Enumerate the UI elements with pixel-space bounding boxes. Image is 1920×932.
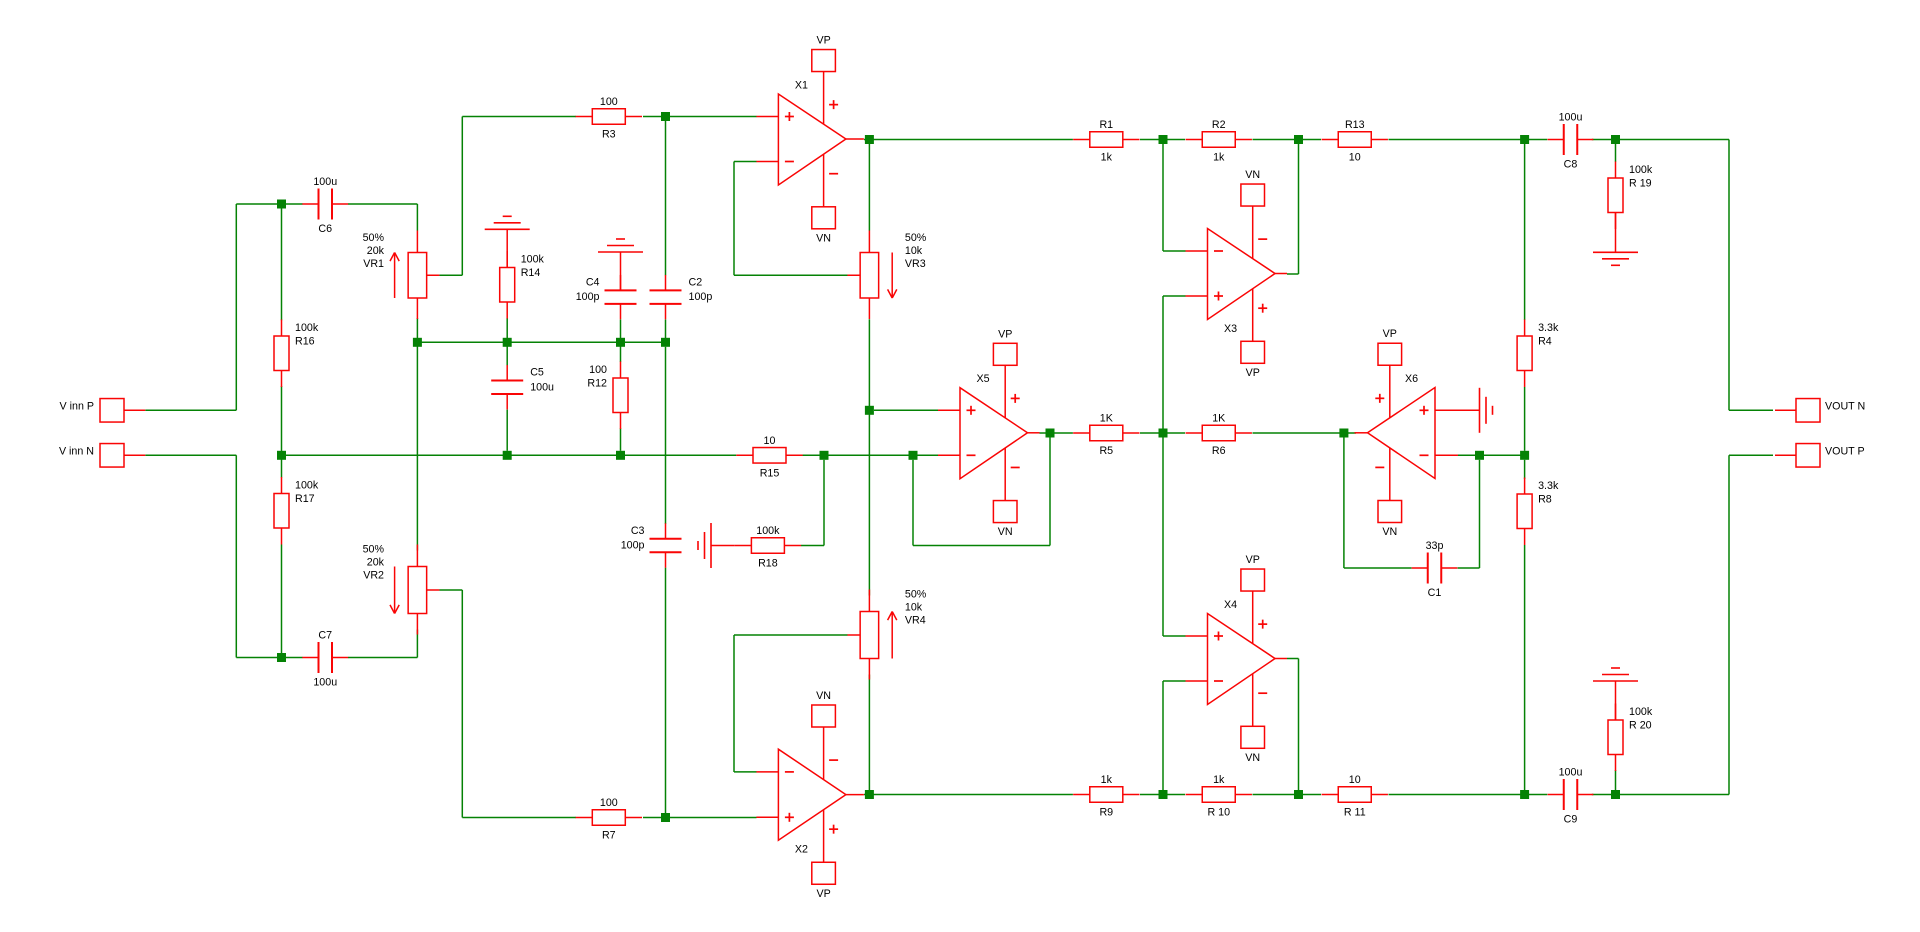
- svg-text:VP: VP: [816, 888, 830, 900]
- wire X1 output to VR3 top: [868, 140, 870, 231]
- svg-text:1K: 1K: [1100, 413, 1114, 425]
- wire R17 bottom to C7 line: [281, 545, 283, 654]
- svg-text:VP: VP: [816, 35, 830, 47]
- wire X2 output rail: [864, 794, 1073, 796]
- wire C1 right: [1458, 567, 1480, 569]
- wire X5 output to feedback: [1049, 438, 1051, 546]
- wire R1/R2 node to X3 minus: [1162, 144, 1164, 251]
- svg-text:R8: R8: [1538, 494, 1552, 506]
- wire V inn N dropper: [235, 455, 237, 657]
- svg-text:C8: C8: [1564, 159, 1578, 171]
- wire R19 to ground: [1615, 213, 1617, 253]
- op-amp X3: [1186, 169, 1288, 379]
- wire V inn P riser: [235, 204, 237, 410]
- wire X4 output: [1287, 658, 1299, 660]
- capacitor C7: [302, 630, 348, 689]
- svg-text:100u: 100u: [1559, 767, 1583, 779]
- wire to VOUT N port: [1729, 409, 1773, 411]
- junction X5 output: [1046, 429, 1055, 438]
- wire X3 plus input: [1163, 295, 1186, 297]
- resistor R3: [576, 96, 642, 141]
- svg-text:R 19: R 19: [1629, 178, 1652, 190]
- svg-text:X1: X1: [795, 80, 808, 92]
- svg-text:R14: R14: [521, 267, 541, 279]
- wire center line to R15: [282, 454, 737, 456]
- junction R2/R13: [1294, 135, 1303, 144]
- ground left of R18: [698, 523, 711, 568]
- resistor R8: [1517, 478, 1559, 546]
- resistor R12: [587, 362, 628, 430]
- wire X3 output: [1287, 273, 1299, 275]
- wire X4 minus to R9/R10 node: [1162, 681, 1164, 790]
- resistor R9: [1073, 774, 1139, 819]
- wire up to VR2 bottom: [416, 630, 418, 658]
- svg-text:V inn P: V inn P: [60, 400, 94, 412]
- capacitor C1: [1412, 540, 1458, 599]
- svg-text:R1: R1: [1099, 119, 1113, 131]
- wire C8 to output corner: [1592, 139, 1729, 141]
- svg-text:100u: 100u: [1559, 112, 1583, 124]
- junction C8/R19: [1611, 135, 1620, 144]
- junction R13/C8/R4: [1520, 135, 1529, 144]
- svg-text:10k: 10k: [905, 602, 923, 614]
- wire X6 output to C1: [1343, 438, 1345, 569]
- capacitor C4: [576, 275, 637, 319]
- op-amp X4: [1186, 554, 1288, 764]
- svg-text:VR1: VR1: [363, 258, 384, 270]
- resistor R10: [1186, 774, 1252, 819]
- svg-text:X6: X6: [1405, 373, 1418, 385]
- ground below R19: [1593, 252, 1638, 265]
- svg-text:10: 10: [1349, 152, 1361, 164]
- svg-text:50%: 50%: [363, 232, 385, 244]
- svg-text:3.3k: 3.3k: [1538, 480, 1559, 492]
- svg-text:100u: 100u: [313, 677, 337, 689]
- svg-text:C4: C4: [586, 276, 600, 288]
- wire VR4 wiper: [734, 634, 848, 636]
- wire R14 bottom / C5 top: [506, 318, 508, 366]
- potentiometer VR2: [363, 544, 440, 635]
- svg-text:X2: X2: [795, 844, 808, 856]
- wire C9 to output corner: [1592, 794, 1729, 796]
- junction R10/R11: [1294, 790, 1303, 799]
- wire C4 bottom / R12 top: [620, 320, 622, 363]
- wire X4 plus input: [1163, 635, 1186, 637]
- svg-text:R13: R13: [1345, 119, 1365, 131]
- junction X5 feedback tap: [909, 451, 918, 460]
- wire X1 feedback riser: [733, 162, 735, 276]
- wire feedback to VR3 wiper: [734, 274, 848, 276]
- svg-text:1K: 1K: [1212, 413, 1226, 425]
- wire X5 output to R5: [1040, 432, 1073, 434]
- resistor R20: [1608, 704, 1653, 772]
- svg-text:100k: 100k: [295, 322, 319, 334]
- wire down to R4: [1524, 144, 1526, 320]
- wire R9 to R10: [1140, 794, 1185, 796]
- wire X6 plus input to ground: [1435, 409, 1480, 411]
- svg-text:100k: 100k: [295, 479, 319, 491]
- svg-text:R3: R3: [602, 129, 616, 141]
- svg-text:VOUT P: VOUT P: [1825, 445, 1865, 457]
- junction C4/R12: [616, 338, 625, 347]
- wire down to VR1 top: [416, 204, 418, 231]
- junction VR3 bottom / X5 input: [865, 406, 874, 415]
- svg-text:R2: R2: [1212, 119, 1226, 131]
- svg-text:3.3k: 3.3k: [1538, 322, 1559, 334]
- svg-text:20k: 20k: [367, 245, 385, 257]
- svg-text:VR2: VR2: [363, 570, 384, 582]
- wire C3 bottom to R7 line: [665, 568, 667, 813]
- ground above R20: [1593, 668, 1638, 681]
- wire VR4 bottom to X2 output: [868, 675, 870, 795]
- wire R18 to ground: [711, 545, 735, 547]
- capacitor C2: [650, 275, 713, 319]
- wire R7 to X2 plus input: [643, 817, 757, 819]
- svg-text:X5: X5: [976, 373, 989, 385]
- svg-text:10: 10: [1349, 774, 1361, 786]
- wire to R19: [1615, 144, 1617, 162]
- svg-text:100p: 100p: [689, 291, 713, 303]
- op-amp X2: [756, 690, 864, 900]
- svg-text:VN: VN: [1382, 526, 1397, 538]
- wire X3 output riser: [1298, 144, 1300, 274]
- wire X5 feedback bottom: [913, 545, 1050, 547]
- junction C5 bottom: [503, 451, 512, 460]
- svg-text:VN: VN: [816, 232, 831, 244]
- junction C3 / R7 / X2 input: [661, 813, 670, 822]
- wire VR2 wiper dropper: [461, 590, 463, 818]
- junction X6 output / C1: [1339, 429, 1348, 438]
- wire X6 minus to R4/R8 node: [1458, 454, 1525, 456]
- wire X3 minus input: [1163, 250, 1186, 252]
- wire V inn N to C7: [236, 657, 302, 659]
- svg-text:100: 100: [600, 96, 618, 108]
- resistor R5: [1073, 413, 1139, 458]
- wire X1 output rail: [864, 139, 1073, 141]
- capacitor C3: [621, 523, 682, 567]
- junction X1 output: [865, 135, 874, 144]
- wire R5 to R6: [1140, 432, 1185, 434]
- resistor R13: [1322, 119, 1388, 164]
- resistor R19: [1608, 162, 1653, 230]
- wire R20 to rail: [1615, 770, 1617, 790]
- resistor R18: [735, 525, 801, 570]
- wire X4 output dropper: [1298, 659, 1300, 791]
- svg-text:R17: R17: [295, 493, 315, 505]
- wire R10 to R11: [1253, 794, 1322, 796]
- junction R16/R17 center tap: [277, 451, 286, 460]
- wire R8 bottom to output rail: [1524, 545, 1526, 790]
- junction X2 output: [865, 790, 874, 799]
- svg-text:C9: C9: [1564, 814, 1578, 826]
- svg-text:C2: C2: [689, 276, 703, 288]
- junction R5/R6: [1159, 429, 1168, 438]
- svg-text:50%: 50%: [905, 232, 927, 244]
- wire R20 to ground: [1615, 681, 1617, 720]
- wire VR1 bottom to VR2 top: [416, 318, 418, 551]
- wire VR1 wiper riser: [461, 117, 463, 276]
- op-amp X5: [938, 328, 1040, 538]
- wire C7 to VR2: [348, 657, 417, 659]
- capacitor C5: [491, 365, 554, 409]
- wire X2 feedback riser: [733, 635, 735, 772]
- svg-text:50%: 50%: [363, 544, 385, 556]
- wire X2 minus input: [734, 771, 757, 773]
- wire C2 top riser: [665, 121, 667, 275]
- svg-text:R12: R12: [587, 378, 607, 390]
- svg-text:R 10: R 10: [1207, 807, 1230, 819]
- resistor R17: [274, 477, 319, 545]
- junction R3 / C2 / X1 input: [661, 112, 670, 121]
- wire tap to X5 plus input: [874, 409, 945, 411]
- svg-text:VP: VP: [1383, 328, 1397, 340]
- svg-text:R 20: R 20: [1629, 720, 1652, 732]
- wire bias mid rail: [417, 341, 665, 343]
- wire C4 to ground: [620, 252, 622, 290]
- svg-text:50%: 50%: [905, 589, 927, 601]
- svg-text:R16: R16: [295, 336, 315, 348]
- svg-text:R 11: R 11: [1344, 807, 1366, 819]
- svg-text:C6: C6: [318, 223, 332, 235]
- svg-text:R18: R18: [758, 558, 778, 570]
- svg-text:R7: R7: [602, 830, 616, 842]
- svg-text:VR4: VR4: [905, 615, 926, 627]
- junction V inn P / R16 / C6: [277, 200, 286, 209]
- resistor R11: [1322, 774, 1388, 819]
- svg-text:C3: C3: [631, 525, 645, 537]
- wire R14 to ground: [506, 229, 508, 267]
- junction V inn N / R17 / C7: [277, 653, 286, 662]
- potentiometer VR1: [363, 231, 440, 320]
- junction mid rail / C2 / C3: [661, 338, 670, 347]
- potentiometer VR3: [847, 231, 926, 320]
- resistor R1: [1073, 119, 1139, 164]
- svg-text:100: 100: [589, 364, 607, 376]
- svg-text:100k: 100k: [1629, 164, 1653, 176]
- svg-text:1k: 1k: [1213, 774, 1225, 786]
- svg-text:100p: 100p: [576, 291, 600, 303]
- wire to VOUT P port: [1729, 454, 1773, 456]
- op-amp X6: [1355, 328, 1459, 538]
- wire C6 to VR1: [348, 203, 417, 205]
- wire X1 minus input: [734, 161, 757, 163]
- svg-text:1k: 1k: [1101, 774, 1113, 786]
- svg-text:100: 100: [600, 797, 618, 809]
- wire R12 bottom to center line: [620, 428, 622, 451]
- svg-text:R15: R15: [760, 467, 780, 479]
- wire VR2 wiper: [439, 589, 462, 591]
- wire mid rail to C3 top: [665, 347, 667, 524]
- svg-text:100u: 100u: [313, 176, 337, 188]
- capacitor C8: [1548, 112, 1594, 171]
- wire node junction to R16 top: [281, 204, 283, 320]
- svg-text:X4: X4: [1224, 599, 1237, 611]
- port VOUT N: [1775, 399, 1865, 423]
- wire X5 feedback riser: [912, 460, 914, 546]
- svg-text:VOUT N: VOUT N: [1825, 400, 1865, 412]
- svg-text:VP: VP: [1246, 367, 1260, 379]
- junction R9/R10: [1159, 790, 1168, 799]
- svg-text:V inn N: V inn N: [59, 445, 94, 457]
- junction VR1 bottom: [413, 338, 422, 347]
- svg-text:VN: VN: [998, 526, 1013, 538]
- svg-text:10k: 10k: [905, 245, 923, 257]
- resistor R2: [1186, 119, 1252, 164]
- wire VOUT N dropper: [1728, 140, 1730, 411]
- wire node to R8: [1524, 460, 1526, 479]
- svg-text:100p: 100p: [621, 540, 645, 552]
- wire VR1 wiper: [439, 274, 462, 276]
- wire R15 to X5 minus input: [803, 454, 945, 456]
- svg-text:1k: 1k: [1213, 152, 1225, 164]
- capacitor C9: [1548, 767, 1594, 826]
- wire C1 to X6 minus node: [1479, 460, 1481, 568]
- svg-text:100k: 100k: [756, 525, 780, 537]
- ground at X6 + input: [1480, 388, 1493, 433]
- wire R16 bottom to R17 top: [281, 386, 283, 478]
- junction C1 / X6 minus: [1475, 451, 1484, 460]
- potentiometer VR4: [847, 589, 926, 680]
- wire R18 to tap corner: [801, 545, 824, 547]
- wire C5 bottom to center line: [506, 410, 508, 451]
- svg-text:20k: 20k: [367, 557, 385, 569]
- wire X3 plus to X4 plus: [1162, 296, 1164, 636]
- wire R11 to C9: [1389, 794, 1548, 796]
- wire V inn P to C6: [236, 203, 302, 205]
- capacitor C6: [302, 176, 348, 235]
- svg-text:33p: 33p: [1426, 540, 1444, 552]
- svg-text:R9: R9: [1099, 807, 1113, 819]
- svg-text:X3: X3: [1224, 323, 1237, 335]
- wire to C1 left: [1344, 567, 1412, 569]
- op-amp X1: [756, 35, 864, 245]
- resistor R6: [1186, 413, 1252, 458]
- wire C2 bottom: [665, 320, 667, 343]
- junction R12 bottom: [616, 451, 625, 460]
- junction R8 / output rail: [1520, 790, 1529, 799]
- wire R3 to X1 plus input: [643, 116, 757, 118]
- wire to R3: [462, 116, 576, 118]
- resistor R15: [736, 435, 802, 480]
- svg-text:1k: 1k: [1101, 152, 1113, 164]
- wire V inn P lead: [145, 409, 236, 411]
- resistor R16: [274, 320, 319, 388]
- wire V inn N lead: [145, 454, 236, 456]
- junction C9/R20: [1611, 790, 1620, 799]
- wire X4 minus input: [1163, 680, 1186, 682]
- wire R2 to R13: [1253, 139, 1322, 141]
- svg-text:100u: 100u: [530, 381, 554, 393]
- svg-text:VR3: VR3: [905, 258, 926, 270]
- wire R18 tap riser: [823, 460, 825, 546]
- ground above R14: [485, 216, 530, 229]
- wire VOUT P riser: [1728, 455, 1730, 794]
- svg-text:C5: C5: [530, 367, 544, 379]
- wire R13 to C8: [1389, 139, 1548, 141]
- svg-text:VP: VP: [998, 328, 1012, 340]
- ground above C4: [598, 239, 643, 252]
- svg-text:R5: R5: [1099, 445, 1113, 457]
- resistor R14: [500, 251, 545, 319]
- junction R18 tap: [820, 451, 829, 460]
- resistor R4: [1517, 320, 1559, 388]
- wire R4 bottom to node: [1524, 387, 1526, 451]
- wire VR3 bottom to VR4 top: [868, 319, 870, 595]
- svg-text:10: 10: [764, 435, 776, 447]
- svg-text:100k: 100k: [1629, 706, 1653, 718]
- svg-text:R6: R6: [1212, 445, 1226, 457]
- svg-text:R4: R4: [1538, 336, 1552, 348]
- wire R1 to R2: [1140, 139, 1185, 141]
- svg-text:100k: 100k: [521, 253, 545, 265]
- svg-text:VN: VN: [816, 690, 831, 702]
- junction R14/C5: [503, 338, 512, 347]
- resistor R7: [576, 797, 642, 842]
- junction R1/R2: [1159, 135, 1168, 144]
- port V inn N: [59, 444, 145, 468]
- svg-text:C7: C7: [318, 630, 332, 642]
- svg-text:VN: VN: [1245, 752, 1260, 764]
- port VOUT P: [1775, 444, 1865, 468]
- svg-text:C1: C1: [1428, 587, 1442, 599]
- svg-text:VN: VN: [1245, 169, 1260, 181]
- port V inn P: [60, 399, 146, 423]
- svg-text:VP: VP: [1246, 554, 1260, 566]
- wire to R7: [462, 817, 576, 819]
- junction R4/R8: [1520, 451, 1529, 460]
- wire R6 to X6 output: [1253, 432, 1357, 434]
